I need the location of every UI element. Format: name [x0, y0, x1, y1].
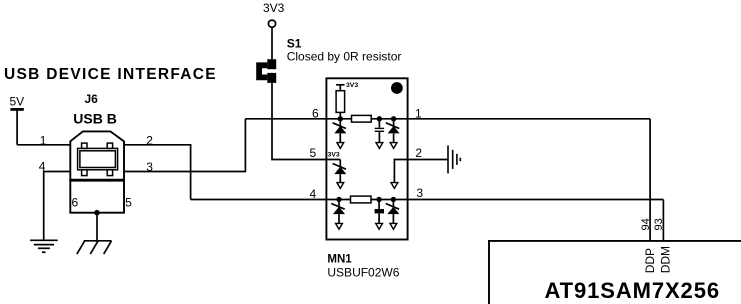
wire S1 to MN1 pin5	[272, 83, 340, 160]
arrow pin2 internal	[391, 183, 398, 189]
ground GND	[30, 240, 58, 252]
wire resistor to node	[339, 112, 341, 118]
svg-text:5V: 5V	[10, 95, 25, 109]
resistor series row C	[351, 196, 372, 203]
wire 3V3 to S1	[271, 27, 273, 59]
svg-text:4: 4	[310, 187, 317, 201]
diode D row C right	[386, 200, 400, 230]
connector J6 tab bottom-left	[82, 170, 87, 176]
resistor series row A	[352, 115, 372, 122]
junction row C at right diode	[391, 197, 396, 202]
svg-text:3V3: 3V3	[328, 152, 340, 159]
diode D row C left	[331, 200, 345, 230]
svg-text:3V3: 3V3	[346, 82, 358, 89]
connector J6 tab top-left	[82, 143, 87, 148]
trace pin2 internal	[394, 160, 407, 183]
connector J6 USB-B outline	[70, 131, 124, 180]
svg-text:5: 5	[310, 146, 317, 160]
svg-text:2: 2	[415, 146, 422, 160]
svg-text:DDP: DDP	[643, 248, 657, 273]
svg-text:USBUF02W6: USBUF02W6	[327, 265, 399, 279]
svg-text:3V3: 3V3	[263, 1, 285, 15]
connector J6 tab top-right	[107, 143, 112, 148]
wire J6 pin4 to ground	[44, 172, 71, 241]
svg-text:93: 93	[653, 218, 665, 230]
IC MN1 box	[326, 78, 407, 239]
svg-text:3: 3	[416, 186, 423, 200]
svg-text:6: 6	[72, 196, 79, 210]
diode D row A right	[386, 119, 400, 149]
switch S1 (solder bridge)	[256, 59, 276, 83]
wire MN1 pin3 to AT91 DDM	[662, 200, 664, 241]
decoupling dot (IC internal marker)	[391, 82, 403, 94]
connector J6 lower box	[70, 180, 124, 213]
wire J6 pin2	[124, 145, 191, 200]
diode D row B (pin5)	[333, 160, 347, 189]
earth ground (rotated)	[448, 145, 460, 173]
svg-text:S1: S1	[287, 37, 302, 51]
junction row C at capacitor	[376, 197, 381, 202]
svg-text:USB DEVICE INTERFACE: USB DEVICE INTERFACE	[4, 66, 217, 83]
svg-text:5: 5	[125, 196, 132, 210]
junction dot J6 shield	[94, 210, 100, 216]
connector J6 tab bottom-right	[107, 170, 112, 176]
svg-text:AT91SAM7X256: AT91SAM7X256	[545, 278, 720, 303]
wire J6 pin1 from 5V	[17, 144, 70, 146]
svg-text:USB B: USB B	[73, 110, 117, 126]
junction row A at right diode	[391, 116, 396, 121]
junction row C at left diode	[336, 197, 341, 202]
svg-text:MN1: MN1	[327, 253, 352, 265]
svg-text:J6: J6	[85, 92, 99, 106]
node circle 3V3	[268, 20, 275, 27]
wire row C (J6 pin2 / MN1 pin4-pin3)	[191, 199, 664, 201]
wire J6 pin3	[124, 119, 245, 172]
svg-text:4: 4	[39, 160, 46, 174]
connector J6 inner receptacle inner rect	[80, 151, 116, 168]
svg-text:DDM: DDM	[659, 246, 673, 273]
svg-text:Closed by 0R resistor: Closed by 0R resistor	[287, 50, 402, 64]
junction row A at capacitor	[377, 116, 382, 121]
connector J6 inner receptacle outer rect	[78, 148, 118, 169]
svg-text:6: 6	[312, 107, 319, 121]
svg-text:1: 1	[40, 133, 47, 147]
connector J6 shell bottom edge (thick)	[70, 179, 124, 182]
power tap 3V3 inside MN1	[336, 82, 358, 91]
svg-text:2: 2	[146, 133, 153, 147]
diode D row A left	[333, 119, 347, 149]
resistor vertical (pull-up)	[336, 91, 345, 113]
svg-text:1: 1	[415, 107, 422, 121]
capacitor row C (filled)	[375, 200, 384, 230]
junction row A at pull-up	[338, 116, 343, 121]
wire row A (J6 pin3 / MN1 pin6-pin1)	[245, 118, 650, 120]
wire J6 shield down	[96, 213, 98, 241]
power flag 5V	[10, 95, 25, 145]
wire MN1 pin1 to AT91 DDP	[649, 119, 651, 241]
chassis ground	[77, 241, 112, 254]
svg-text:94: 94	[640, 218, 652, 230]
svg-text:3: 3	[146, 160, 153, 174]
IC AT91 box	[489, 241, 741, 304]
wire pin2 to earth	[408, 159, 448, 161]
capacitor row A	[375, 119, 384, 149]
